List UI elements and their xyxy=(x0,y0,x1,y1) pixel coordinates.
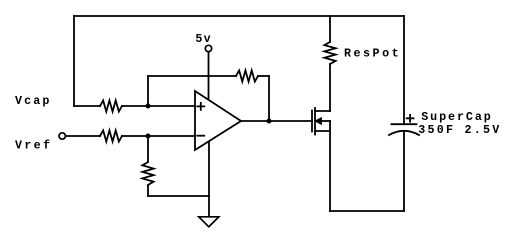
transistor Q1 channel bar xyxy=(314,108,316,135)
svg-text:Vref: Vref xyxy=(15,138,50,152)
wire R1 to op-amp + input xyxy=(122,105,195,107)
resistor ResPot xyxy=(324,42,335,64)
wire left drop from top rail to Vcap row xyxy=(73,16,75,106)
terminal 5v circle xyxy=(205,45,211,51)
wire SuperCap top column xyxy=(403,16,405,124)
node B junction dot (- input) xyxy=(146,134,151,139)
svg-text:5v: 5v xyxy=(195,32,210,46)
ground xyxy=(199,217,219,227)
node A junction dot (+ input) xyxy=(146,104,151,109)
resistor R1 (Vcap input) xyxy=(100,100,122,111)
wire R2 to output column xyxy=(258,75,269,77)
transistor Q1 gate bar xyxy=(311,111,313,132)
wire R3 to op-amp - input xyxy=(122,135,195,137)
wire bottom horizontal to op-amp V- pin xyxy=(148,195,209,197)
transistor Q1 body arrow xyxy=(316,118,321,123)
wire op-amp V- pin to ground xyxy=(208,141,210,216)
wire drain up to ResPot xyxy=(329,64,331,111)
capacitor C1 curved plate xyxy=(389,131,419,135)
wire Vcap lead xyxy=(74,105,100,107)
op-amp U1 xyxy=(195,91,241,150)
svg-text:SuperCap: SuperCap xyxy=(421,110,491,124)
transistor Q1 drain stub xyxy=(315,110,330,112)
wire bottom rail xyxy=(330,210,404,212)
transistor Q1 source stub xyxy=(315,130,330,132)
capacitor C1 top plate xyxy=(392,123,417,125)
wire ResPot top lead xyxy=(329,16,331,42)
wire SuperCap bottom column xyxy=(403,132,405,212)
capacitor C1 polarity plus xyxy=(407,115,414,122)
resistor R2 (feedback) xyxy=(236,70,258,81)
wire Vref lead xyxy=(66,135,101,137)
transistor Q1 body stub xyxy=(321,120,330,122)
wire source down xyxy=(329,121,331,211)
wire op-amp output to gate xyxy=(241,120,312,122)
node OUT junction dot xyxy=(267,119,272,124)
op-amp U1 plus input mark xyxy=(197,103,204,110)
resistor R4 (to ground leg) xyxy=(142,162,153,185)
terminal Vref circle xyxy=(59,133,65,139)
wire output column vertical xyxy=(268,76,270,121)
resistor R3 (Vref input) xyxy=(100,130,122,141)
wire R4 bottom lead xyxy=(147,185,149,196)
svg-text:Vcap: Vcap xyxy=(15,94,49,108)
wire feedback vertical at node A xyxy=(147,76,149,106)
svg-text:350F 2.5V: 350F 2.5V xyxy=(418,123,499,137)
wire top rail xyxy=(74,15,404,17)
op-amp U1 minus input mark xyxy=(197,135,204,137)
wire 5v pin xyxy=(208,52,210,100)
wire feedback horizontal xyxy=(148,75,236,77)
svg-text:ResPot: ResPot xyxy=(344,47,399,61)
wire node B down xyxy=(147,136,149,162)
